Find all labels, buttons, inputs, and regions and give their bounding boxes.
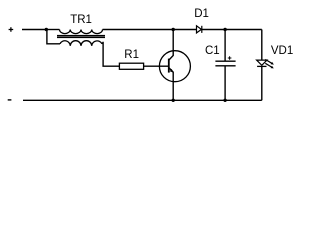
bottom rail wire bbox=[23, 99, 262, 101]
resistor R1 bbox=[119, 63, 143, 69]
emitter junction dot bbox=[172, 99, 175, 102]
wire right rail down to LED bbox=[261, 30, 263, 61]
wire R1 to base bbox=[144, 65, 169, 67]
label TR1 bbox=[70, 15, 92, 27]
wire diode to node C bbox=[202, 29, 262, 31]
node A junction dot bbox=[45, 28, 48, 31]
wire node A down to secondary left bbox=[47, 30, 60, 44]
diode D1 bbox=[197, 26, 202, 33]
wire + input top bbox=[22, 29, 46, 31]
LED VD1 triangle bbox=[257, 60, 267, 65]
label VD1 bbox=[271, 46, 293, 58]
transformer TR1 primary winding bbox=[60, 30, 103, 34]
LED VD1 emission arrows bbox=[265, 59, 274, 68]
capacitor C1 plates bbox=[215, 61, 235, 66]
plus terminal bbox=[9, 27, 14, 32]
capacitor C1 polarity plus bbox=[228, 56, 232, 60]
label C1 bbox=[205, 46, 220, 58]
LED VD1 cathode bar bbox=[257, 65, 266, 67]
transistor Q1 emitter bbox=[169, 68, 173, 101]
C1 junction dot bbox=[223, 99, 226, 102]
transistor Q1 base bar bbox=[168, 59, 170, 73]
transformer TR1 secondary winding bbox=[60, 41, 102, 46]
wire node C down to C1 bbox=[224, 30, 226, 61]
wire LED to bottom rail bbox=[261, 66, 263, 100]
transistor Q1 circle bbox=[159, 51, 190, 82]
node C junction dot bbox=[223, 28, 226, 31]
wire node A to primary left bbox=[46, 29, 59, 31]
transistor Q1 collector bbox=[169, 30, 173, 61]
wire secondary right down to R1 bbox=[102, 42, 119, 66]
wire primary right to node B bbox=[103, 29, 197, 31]
label R1 bbox=[124, 50, 139, 62]
label D1 bbox=[194, 9, 209, 21]
node B junction dot (collector) bbox=[172, 28, 175, 31]
minus terminal bbox=[8, 99, 12, 101]
transistor Q1 emitter arrow bbox=[170, 69, 174, 73]
transformer TR1 core bbox=[57, 35, 105, 38]
wire C1 to bottom rail bbox=[224, 67, 226, 101]
